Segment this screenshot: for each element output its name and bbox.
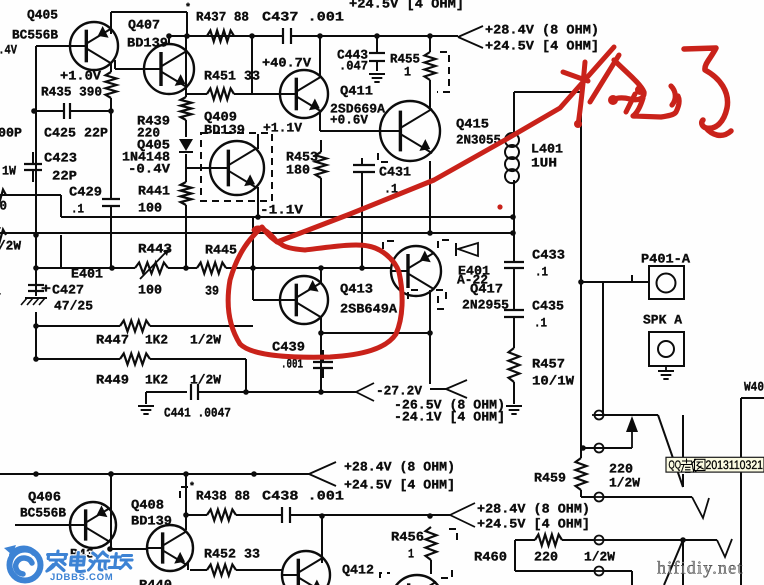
label R459 — [534, 470, 566, 485]
transistor Q411 — [280, 70, 328, 118]
label P401-A — [641, 251, 690, 266]
label R43 — [70, 546, 94, 561]
svg-text:Q411: Q411 — [340, 83, 373, 98]
label 2SD669A — [330, 101, 385, 116]
label W40 — [744, 379, 764, 394]
wire speaker pair 2 — [664, 540, 683, 585]
label R451 33 — [204, 68, 260, 83]
svg-text:+1.1V: +1.1V — [263, 120, 302, 135]
label Q411 — [340, 83, 373, 98]
junction (321,268) — [318, 265, 324, 271]
capacitor C438 — [282, 507, 290, 523]
label C427 — [52, 282, 84, 297]
wire Q405 to Q407 base — [115, 60, 145, 69]
label +28.4V (8 OHM) — [344, 459, 455, 474]
label +24.5V [4 OHM] — [344, 477, 455, 492]
svg-text:100: 100 — [138, 200, 162, 215]
svg-text:1: 1 — [404, 64, 411, 79]
label 100P — [0, 125, 22, 140]
svg-text:1K2: 1K2 — [145, 332, 168, 347]
label C437 .001 — [262, 9, 344, 24]
wire seg x=61 — [60, 235, 62, 268]
svg-text:R438 88: R438 88 — [196, 488, 250, 503]
resistor R443 variable — [135, 249, 169, 279]
wire R456 bottom — [430, 560, 432, 574]
svg-text:+24.5V [4 OHM]: +24.5V [4 OHM] — [344, 477, 455, 492]
label +1.0V — [60, 68, 101, 83]
wire T1 row y=415 — [594, 414, 658, 416]
dashed corner Q412 — [380, 573, 390, 578]
label E401 — [458, 263, 490, 278]
junction (187,36) — [184, 33, 190, 39]
dashed corner C431 — [378, 153, 389, 162]
junction (583,448) — [580, 445, 586, 451]
inductor L401 — [505, 133, 519, 183]
dashed corner R455 — [437, 52, 449, 92]
bus x=603 P401 — [602, 282, 604, 415]
label 1 — [0, 217, 1, 232]
label R447 — [96, 332, 129, 347]
wire Q412 collector — [321, 516, 323, 563]
red char2 liao — [684, 48, 731, 135]
red blob1 — [608, 95, 618, 105]
watermark hanzi DIAN — [70, 553, 87, 572]
svg-text:+24.5V [4 OHM]: +24.5V [4 OHM] — [349, 0, 464, 11]
label 1.4V — [0, 42, 17, 57]
svg-text:47/25: 47/25 — [54, 298, 93, 313]
label R438 88 — [196, 488, 250, 503]
svg-text:1UH: 1UH — [531, 155, 557, 170]
wire E401 row y=268 — [36, 267, 391, 269]
svg-text:1/2W: 1/2W — [584, 549, 615, 564]
wire Q413 emitter — [320, 317, 322, 392]
transistor Q406 — [70, 502, 116, 548]
svg-text:*: * — [189, 481, 195, 493]
svg-text:QQ: QQ — [669, 460, 682, 472]
svg-text:BD139: BD139 — [204, 122, 245, 137]
watermark hanzi LUN — [89, 552, 111, 570]
junction (169,36) — [166, 33, 172, 39]
junction (246,392) — [243, 389, 249, 395]
svg-text:1K2: 1K2 — [145, 372, 168, 387]
svg-text:BD139: BD139 — [131, 513, 172, 528]
svg-text:10/1W: 10/1W — [532, 373, 574, 388]
capacitor C435 — [504, 310, 524, 317]
label -24.1V [4 OHM] — [394, 409, 505, 424]
svg-text:BC556B: BC556B — [12, 27, 58, 42]
connector SPK-A box — [649, 332, 684, 366]
svg-text:+24.5V [4 OHM]: +24.5V [4 OHM] — [485, 38, 599, 53]
wire Q417 out y=333 — [321, 333, 446, 389]
svg-text:.1: .1 — [534, 315, 547, 330]
label Q412 — [342, 562, 374, 577]
capacitor C425 — [64, 103, 70, 119]
svg-text:+1.0V: +1.0V — [60, 68, 101, 83]
red vertical stroke char1 — [578, 62, 585, 125]
red stroke fire-dash — [563, 72, 588, 81]
svg-text:+40.7V: +40.7V — [262, 55, 311, 70]
svg-text:L401: L401 — [531, 141, 563, 156]
svg-text:+0.6V: +0.6V — [330, 112, 368, 127]
dashed bracket R438 — [180, 487, 188, 500]
junction (36,359) — [33, 356, 39, 362]
label 1 — [408, 546, 414, 561]
svg-text:C429: C429 — [69, 184, 102, 199]
chassis ground C427 — [21, 298, 47, 305]
wire check V2 — [692, 497, 709, 518]
wire R453 stub — [320, 140, 322, 217]
wire R452 row y=570 — [190, 569, 282, 571]
dashed bracket Q413c — [436, 290, 446, 299]
svg-text:2013110321: 2013110321 — [706, 458, 764, 472]
transistor Q405 — [70, 22, 118, 70]
transistor Q415 — [380, 101, 440, 161]
wire Q408 emitter stub — [187, 563, 189, 570]
svg-text:.1: .1 — [71, 201, 84, 216]
label C431 — [379, 164, 411, 179]
junction (362,268) — [359, 265, 365, 271]
label -1.1V — [260, 202, 303, 217]
transistor Q408 — [147, 525, 193, 571]
label C441 .0047 — [164, 405, 231, 420]
label .047 — [339, 58, 368, 73]
dashed bracket Q413b — [408, 290, 420, 299]
red char1 hook — [671, 86, 675, 105]
resistor R451 — [207, 89, 234, 100]
label 22P — [52, 168, 77, 183]
wire R449 row y=359 — [36, 359, 246, 392]
svg-text:C423: C423 — [44, 150, 77, 165]
star mark bottom — [189, 481, 195, 493]
svg-text:+28.4V (8 OHM): +28.4V (8 OHM) — [485, 22, 599, 37]
wire Q409 emitter — [257, 187, 259, 217]
bus x=111 — [110, 62, 112, 268]
wire Q406-Q408 y=549 — [111, 548, 147, 550]
resistor R441 — [181, 182, 192, 205]
red char1 cross stroke — [590, 55, 619, 102]
resistor R460 — [535, 535, 562, 546]
label +0.6V — [330, 112, 368, 127]
label Q417 — [470, 281, 503, 296]
bus x=252 — [251, 36, 253, 94]
bus x=111 bottom — [110, 474, 112, 549]
resistor R447 — [120, 321, 150, 332]
svg-text:R456: R456 — [391, 529, 424, 544]
svg-text:E401: E401 — [71, 266, 103, 281]
svg-text:SPK A: SPK A — [643, 312, 682, 327]
svg-text:R437 88: R437 88 — [196, 9, 249, 24]
junction (320,36) — [317, 33, 323, 39]
junction (111,474) — [108, 471, 114, 477]
label /2W — [0, 238, 21, 253]
label R449 — [96, 372, 129, 387]
red pointer line — [254, 47, 614, 242]
resistor R435 — [106, 72, 117, 98]
transistor Q407 — [144, 44, 194, 94]
bus x=581 output — [581, 92, 594, 497]
dashed corner R456 bot — [441, 567, 452, 578]
wire mid rail y=217 — [61, 216, 514, 218]
wire R447 row y=326 — [36, 325, 253, 327]
watermark JDBBS.COM — [50, 572, 113, 583]
label 1N4148 — [122, 149, 170, 164]
label R437 88 — [196, 9, 249, 24]
label +28.4V (8 OHM) — [477, 501, 590, 516]
svg-text:100P: 100P — [0, 125, 22, 140]
label -0.4V — [128, 161, 170, 176]
arrow up near T2 — [626, 416, 638, 448]
ground below R457 — [506, 406, 522, 414]
label 2N3055 — [456, 132, 501, 147]
label C423 — [44, 150, 77, 165]
transistor Q417 — [391, 246, 441, 296]
label 220 — [609, 461, 633, 476]
junction (36,474) — [33, 471, 39, 477]
label 2SB649A — [340, 301, 397, 316]
label C429 — [69, 184, 102, 199]
label Q405 — [27, 7, 58, 22]
svg-text:39: 39 — [205, 283, 219, 298]
svg-text:1: 1 — [0, 283, 1, 298]
label +1.1V — [263, 120, 302, 135]
label C435 — [532, 298, 564, 313]
wire Q409 base — [186, 167, 211, 169]
resistor partial left edge 2 — [0, 230, 6, 241]
junction (36,235) — [33, 232, 39, 238]
svg-text:R449: R449 — [96, 372, 129, 387]
dashed corner R456 top — [449, 529, 457, 540]
svg-text:.047: .047 — [339, 58, 368, 73]
transistor Q409 — [210, 141, 264, 195]
label C443 — [337, 47, 368, 62]
terminal pin 5 — [592, 567, 606, 576]
label 1W — [2, 163, 16, 178]
wire C431 stub — [361, 158, 363, 268]
label R452 33 — [204, 546, 260, 561]
junction (321,392) — [318, 389, 324, 395]
label BD139 — [204, 122, 245, 137]
svg-text:C431: C431 — [379, 164, 411, 179]
caption QQ screenshot box — [666, 457, 764, 472]
label R460 — [474, 549, 507, 564]
label 100 — [138, 282, 162, 297]
junction (513,217) — [510, 214, 516, 220]
wire stub y=195 — [0, 195, 61, 217]
transistor Q412 — [282, 551, 330, 585]
svg-text:100: 100 — [138, 282, 162, 297]
label Q407 — [128, 17, 160, 32]
label R453 — [286, 149, 318, 164]
svg-text:Q406: Q406 — [28, 489, 61, 504]
capacitor C433 — [504, 262, 524, 268]
svg-text:+: + — [41, 281, 51, 296]
junction (322,516) — [319, 513, 325, 519]
arrow symbol near Q417 — [456, 243, 478, 256]
resistor R438 — [207, 510, 236, 521]
dashed bracket Q413a — [383, 241, 394, 250]
resistor partial left edge 1 — [0, 190, 6, 201]
label .1 — [534, 315, 547, 330]
wire x=253 seg — [252, 217, 254, 300]
label R456 — [391, 529, 424, 544]
svg-text:-0.4V: -0.4V — [128, 161, 170, 176]
svg-text:1/2W: 1/2W — [190, 332, 221, 347]
resistor R449 — [120, 354, 150, 365]
wire x=515 seg — [514, 540, 516, 571]
svg-text:JDBBS.COM: JDBBS.COM — [50, 572, 113, 583]
label BC556B — [12, 27, 58, 42]
label Q408 — [131, 497, 164, 512]
capacitor C427 electrolytic — [28, 285, 44, 291]
capacitor C429 — [102, 199, 120, 206]
svg-text:Q412: Q412 — [342, 562, 374, 577]
label BD139 — [131, 513, 172, 528]
terminal pin 1 — [592, 411, 606, 420]
label 1 — [0, 283, 1, 298]
capacitor C441 — [191, 384, 198, 400]
resistor R437 — [207, 31, 234, 42]
svg-text:W40: W40 — [744, 379, 764, 394]
label 20 — [0, 198, 7, 213]
label 1/2W — [190, 332, 221, 347]
transistor Q413 — [280, 276, 328, 324]
label Q405 — [137, 137, 170, 152]
bus x=186 bottom — [185, 474, 187, 530]
bus x=514 zobel — [513, 92, 515, 404]
label R455 — [390, 51, 420, 66]
svg-text:*: * — [185, 2, 191, 14]
label .1 — [71, 201, 84, 216]
dashed corner Q417 bot — [438, 296, 449, 309]
label R445 — [205, 242, 237, 257]
junction (34,111) — [31, 108, 37, 114]
resistor R455 — [425, 52, 436, 80]
label R435 390 — [41, 84, 102, 99]
wire R438 row y=515 — [186, 514, 450, 516]
wire T4 row y=540 — [515, 539, 717, 541]
svg-text:C441 .0047: C441 .0047 — [164, 405, 231, 420]
wire +40.7V rail y=36 — [187, 35, 458, 37]
junction (683,540) — [680, 537, 686, 543]
label +28.4V (8 OHM) — [485, 22, 599, 37]
fork +28.4V bottom1 — [309, 462, 336, 486]
label Q413 — [340, 281, 373, 296]
label A-22 — [457, 272, 488, 287]
junction (258,217) — [255, 214, 261, 220]
svg-text:R443: R443 — [138, 241, 172, 256]
label .001 — [281, 356, 303, 371]
connector P401-A box — [632, 266, 684, 299]
junction (186,515) — [183, 512, 189, 518]
watermark hanzi JIA — [46, 551, 67, 571]
wire C441 row y=392 — [146, 391, 356, 393]
junction (36,326) — [33, 323, 39, 329]
label 1K2 — [145, 332, 168, 347]
junction (430,233) — [427, 230, 433, 236]
label 220 — [534, 549, 558, 564]
svg-text:180: 180 — [286, 162, 310, 177]
wire Q406 base — [15, 524, 70, 526]
svg-text:Q405: Q405 — [27, 7, 58, 22]
label 1/2W — [584, 549, 615, 564]
svg-text:hifidiy.net: hifidiy.net — [657, 558, 744, 578]
label -27.2V — [376, 383, 422, 398]
junction (186,474) — [183, 471, 189, 477]
junction (254,474) — [251, 471, 257, 477]
junction (111,474) — [108, 471, 114, 477]
label -26.5V (8 OHM) — [394, 397, 505, 412]
svg-text:C437 .001: C437 .001 — [262, 9, 344, 24]
junction (430,516) — [427, 513, 433, 519]
label .1 — [535, 264, 548, 279]
svg-text:R457: R457 — [532, 356, 565, 371]
svg-text:Q407: Q407 — [128, 17, 160, 32]
label Q406 — [28, 489, 61, 504]
wire Q417 down — [429, 290, 431, 333]
capacitor C439 — [313, 350, 333, 378]
resistor R453 — [316, 152, 327, 178]
diode D405 1N4148 — [179, 139, 193, 152]
svg-text:C433: C433 — [532, 247, 565, 262]
junction (430,333) — [427, 330, 433, 336]
svg-text:C425 22P: C425 22P — [44, 125, 108, 140]
svg-text:1/2W: 1/2W — [609, 475, 640, 490]
resistor R445 — [197, 263, 226, 274]
wire rail y=233 — [0, 232, 513, 234]
label + — [41, 281, 51, 296]
dashed corner Q417 top — [438, 240, 449, 253]
svg-text:+28.4V (8 OHM): +28.4V (8 OHM) — [344, 459, 455, 474]
terminal pin 4 — [592, 536, 606, 545]
label 1/2W — [190, 372, 221, 387]
resistor R457 — [509, 348, 520, 382]
label C439 — [272, 339, 305, 354]
wire Q409 collector stub — [257, 134, 259, 149]
label C433 — [532, 247, 565, 262]
junction (112,268) — [109, 265, 115, 271]
wire T5 row y=571 — [515, 571, 632, 585]
wire Q411 collector — [319, 36, 321, 78]
wire Q413 base y=300 — [253, 299, 280, 301]
label +24.5V [4 OHM] — [349, 0, 464, 11]
svg-text:Q408: Q408 — [131, 497, 164, 512]
red loop around Q413 — [228, 227, 402, 357]
label 1 — [404, 64, 411, 79]
junction (110,549) — [107, 546, 113, 552]
label 10/1W — [532, 373, 574, 388]
wire C443 stub — [376, 36, 378, 71]
wire Q405 base — [36, 45, 70, 47]
bus x=186 — [185, 36, 187, 268]
watermark hifidiy.net — [657, 558, 744, 578]
svg-text:1.4V: 1.4V — [0, 42, 17, 57]
svg-text:Q413: Q413 — [340, 281, 373, 296]
label E401 — [71, 266, 103, 281]
red char1 bottom U — [633, 96, 679, 117]
svg-text:R452 33: R452 33 — [204, 546, 260, 561]
label SPK A — [643, 312, 682, 327]
svg-text:-1.1V: -1.1V — [260, 202, 303, 217]
svg-text:/2W: /2W — [0, 238, 21, 253]
svg-text:20: 20 — [0, 198, 7, 213]
fork +28.4V bottom2 — [450, 503, 475, 527]
wire C425 row y=111 — [34, 110, 111, 112]
capacitor C443 — [369, 53, 385, 61]
wire R451 row y=94 — [186, 93, 280, 95]
junction (253,268) — [250, 265, 256, 271]
label 39 — [205, 283, 219, 298]
label C425 22P — [44, 125, 108, 140]
